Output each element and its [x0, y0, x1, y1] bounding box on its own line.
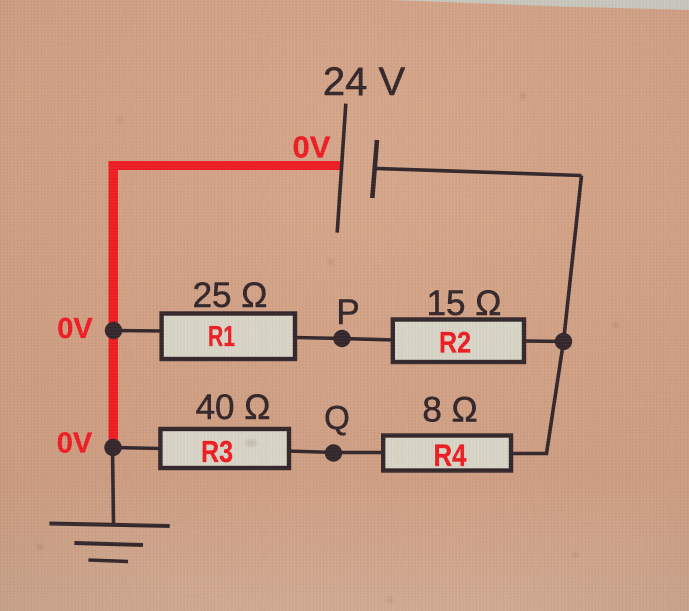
wire: R1 to node P: [295, 338, 342, 339]
wire: R3 to node Q: [288, 451, 334, 453]
wire: R2 to right node: [524, 339, 564, 343]
wire: ground stem: [113, 448, 114, 524]
node dot lower-left 0V junction: [104, 439, 121, 456]
wire: battery positive to top-right corner: [377, 169, 582, 176]
resistor R4 box: [383, 436, 511, 471]
background smudges: [38, 94, 619, 603]
gray screen edge wedge top-right: [392, 0, 689, 10]
battery B1 right (short) plate: [372, 140, 377, 198]
smudge on R3 box: [245, 440, 257, 447]
wire: right vertical lower segment: [547, 342, 564, 454]
resistor R3 box: [160, 429, 289, 468]
node dot right junction: [555, 333, 572, 350]
resistor R1 box: [162, 314, 295, 360]
wire: left node to R1: [113, 329, 163, 333]
wire: red jumper vertical down left side: [109, 161, 119, 451]
wire: node Q to R4: [334, 451, 384, 455]
battery B1 left (long) plate: [337, 104, 346, 233]
node Q dot: [325, 444, 342, 461]
node dot upper-left 0V junction: [105, 322, 122, 339]
ground bar 3: [88, 560, 128, 562]
wire: R4 to bottom-right corner: [511, 452, 548, 456]
wire: red jumper horizontal from top-left corner to battery negative plate: [109, 161, 343, 170]
wire: node P to R2: [342, 339, 394, 341]
wire: lower left node to R3: [113, 448, 162, 449]
resistor R2 box: [393, 320, 524, 363]
ground bar 1: [49, 524, 169, 527]
wire: right vertical upper segment: [564, 176, 582, 342]
ground bar 2: [74, 543, 143, 545]
node P dot: [333, 330, 350, 347]
